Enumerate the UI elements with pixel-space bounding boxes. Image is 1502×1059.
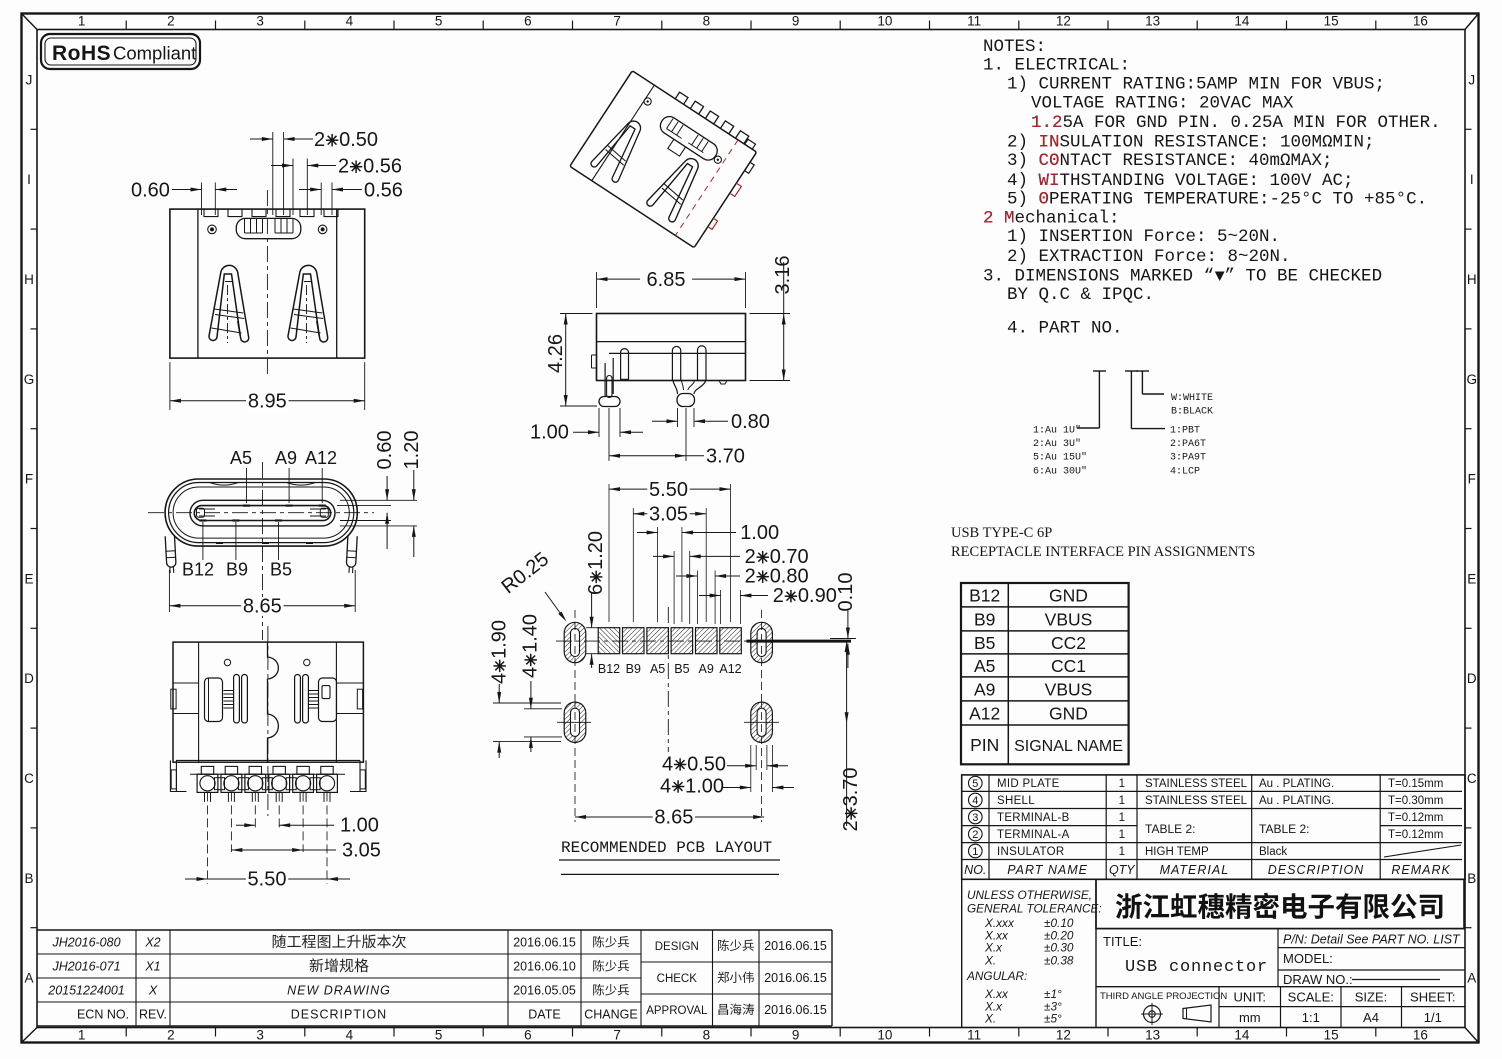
svg-text:6: 6 — [524, 14, 532, 29]
svg-text:16: 16 — [1413, 14, 1428, 29]
svg-text:TABLE 2:: TABLE 2: — [1259, 822, 1309, 836]
svg-text:2:Au 3U": 2:Au 3U" — [1033, 438, 1081, 450]
svg-text:B5: B5 — [974, 633, 995, 653]
svg-text:4: 4 — [660, 775, 671, 797]
svg-text:0.10: 0.10 — [835, 573, 857, 612]
svg-text:SHEET:: SHEET: — [1410, 990, 1456, 1005]
svg-text:10: 10 — [877, 1028, 892, 1043]
svg-text:0.50: 0.50 — [687, 753, 726, 775]
svg-text:3: 3 — [972, 812, 978, 824]
svg-text:1: 1 — [1119, 795, 1125, 807]
svg-text:NOTES:: NOTES: — [983, 37, 1046, 57]
svg-text:Compliant: Compliant — [113, 43, 196, 64]
svg-text:4:LCP: 4:LCP — [1170, 466, 1200, 477]
svg-text:11: 11 — [967, 1028, 981, 1043]
svg-text:16: 16 — [1413, 1028, 1428, 1043]
svg-text:GND: GND — [1049, 704, 1088, 724]
svg-text:B12: B12 — [182, 560, 214, 580]
svg-text:6.85: 6.85 — [647, 269, 686, 291]
svg-text:5.50: 5.50 — [649, 479, 688, 501]
svg-text:14: 14 — [1234, 1028, 1250, 1043]
svg-text:±0.38: ±0.38 — [1044, 954, 1074, 968]
svg-text:DRAW NO.:: DRAW NO.: — [1283, 972, 1353, 987]
svg-text:ANGULAR:: ANGULAR: — [966, 969, 1027, 983]
svg-text:I: I — [1470, 172, 1474, 187]
svg-text:A4: A4 — [1363, 1010, 1379, 1025]
svg-text:15: 15 — [1324, 14, 1339, 29]
svg-text:2:PA6T: 2:PA6T — [1170, 439, 1206, 450]
svg-text:2016.06.15: 2016.06.15 — [764, 939, 827, 953]
svg-text:1.20: 1.20 — [585, 531, 607, 570]
svg-text:3.05: 3.05 — [342, 840, 381, 862]
svg-text:RoHS: RoHS — [52, 42, 111, 65]
svg-text:6: 6 — [585, 584, 607, 595]
svg-text:A12: A12 — [719, 662, 741, 676]
svg-text:CHECK: CHECK — [657, 973, 698, 985]
svg-text:1) CURRENT RATING:5AMP MIN FOR: 1) CURRENT RATING:5AMP MIN FOR VBUS; — [1007, 74, 1385, 94]
svg-text:0.50: 0.50 — [339, 129, 378, 151]
svg-text:SCALE:: SCALE: — [1288, 990, 1334, 1005]
svg-text:RECOMMENDED PCB LAYOUT: RECOMMENDED PCB LAYOUT — [561, 839, 772, 857]
svg-text:2: 2 — [314, 129, 325, 151]
svg-text:5:Au 15U": 5:Au 15U" — [1033, 452, 1087, 464]
svg-text:NEW DRAWING: NEW DRAWING — [287, 984, 391, 998]
svg-text:UNIT:: UNIT: — [1234, 990, 1267, 1005]
svg-text:B9: B9 — [226, 560, 248, 580]
svg-text:HIGH TEMP: HIGH TEMP — [1145, 846, 1209, 858]
svg-text:10: 10 — [877, 14, 892, 29]
svg-text:±5°: ±5° — [1044, 1012, 1062, 1026]
svg-text:1/1: 1/1 — [1424, 1010, 1442, 1025]
svg-text:USB TYPE-C 6P: USB TYPE-C 6P — [951, 525, 1052, 541]
svg-text:D: D — [24, 671, 34, 686]
svg-text:2016.06.15: 2016.06.15 — [764, 971, 827, 985]
svg-text:B5: B5 — [674, 662, 689, 676]
svg-text:1: 1 — [1119, 812, 1125, 824]
svg-text:2: 2 — [167, 14, 175, 29]
svg-text:CC2: CC2 — [1051, 633, 1086, 653]
svg-text:A12: A12 — [305, 448, 337, 468]
svg-text:8.65: 8.65 — [654, 807, 693, 829]
svg-text:A5: A5 — [974, 656, 995, 676]
svg-text:3.70: 3.70 — [840, 767, 862, 806]
svg-text:1.20: 1.20 — [401, 431, 423, 470]
svg-text:A9: A9 — [974, 680, 995, 700]
svg-text:2) EXTRACTION Force: 8~20N.: 2) EXTRACTION Force: 8~20N. — [1007, 247, 1291, 267]
svg-text:Black: Black — [1259, 846, 1287, 858]
svg-text:VBUS: VBUS — [1045, 610, 1093, 630]
svg-text:A: A — [24, 971, 33, 986]
svg-text:1: 1 — [1119, 846, 1125, 858]
svg-text:JH2016-080: JH2016-080 — [51, 936, 120, 950]
svg-text:GENERAL TOLERANCE:: GENERAL TOLERANCE: — [967, 902, 1102, 916]
svg-text:PART NAME: PART NAME — [1007, 863, 1088, 877]
svg-text:0.90: 0.90 — [798, 585, 837, 607]
svg-text:A12: A12 — [969, 704, 1000, 724]
svg-text:DESCRIPTION: DESCRIPTION — [1268, 863, 1364, 877]
svg-text:MATERIAL: MATERIAL — [1160, 863, 1230, 877]
svg-text:1.00: 1.00 — [740, 522, 779, 544]
svg-text:RECEPTACLE INTERFACE PIN ASSIG: RECEPTACLE INTERFACE PIN ASSIGNMENTS — [951, 544, 1255, 560]
svg-text:TITLE:: TITLE: — [1103, 934, 1142, 949]
svg-text:8: 8 — [703, 1028, 711, 1043]
svg-text:APPROVAL: APPROVAL — [646, 1005, 708, 1017]
svg-text:6:Au 30U": 6:Au 30U" — [1033, 465, 1087, 477]
svg-text:0.56: 0.56 — [364, 180, 403, 202]
svg-text:IN: IN — [1039, 133, 1060, 153]
svg-text:STAINLESS STEEL: STAINLESS STEEL — [1145, 795, 1248, 807]
svg-text:4.26: 4.26 — [545, 334, 567, 373]
svg-text:4: 4 — [662, 753, 673, 775]
svg-text:BY Q.C & IPQC.: BY Q.C & IPQC. — [1007, 285, 1154, 305]
svg-text:5) OPERATING TEMPERATURE:-25°C: 5) OPERATING TEMPERATURE:-25°C TO +85°C. — [1007, 189, 1427, 209]
svg-text:X1: X1 — [144, 960, 160, 974]
svg-text:5: 5 — [435, 14, 443, 29]
svg-text:2: 2 — [840, 820, 862, 831]
svg-text:H: H — [24, 272, 34, 287]
svg-text:TERMINAL-B: TERMINAL-B — [997, 812, 1070, 824]
svg-text:THIRD ANGLE PROJECTION: THIRD ANGLE PROJECTION — [1100, 991, 1227, 1002]
svg-text:JH2016-071: JH2016-071 — [51, 960, 120, 974]
svg-text:TABLE 2:: TABLE 2: — [1145, 822, 1195, 836]
svg-text:CHANGE: CHANGE — [584, 1008, 637, 1022]
svg-text:SIGNAL NAME: SIGNAL NAME — [1014, 738, 1123, 755]
svg-text:X.: X. — [984, 1012, 996, 1026]
svg-text:2: 2 — [167, 1028, 175, 1043]
svg-text:A: A — [1467, 971, 1476, 986]
svg-text:A5: A5 — [650, 662, 665, 676]
svg-text:13: 13 — [1145, 1028, 1160, 1043]
svg-text:B: B — [24, 871, 33, 886]
svg-text:1.00: 1.00 — [340, 815, 379, 837]
svg-text:0.60: 0.60 — [374, 431, 396, 470]
svg-text:9: 9 — [792, 1028, 800, 1043]
svg-text:5: 5 — [972, 778, 978, 790]
svg-text:B9: B9 — [626, 662, 641, 676]
svg-text:5.50: 5.50 — [248, 869, 287, 891]
svg-text:3. DIMENSIONS MARKED “ ” TO BE: 3. DIMENSIONS MARKED “ ” TO BE CHECKED — [983, 266, 1382, 286]
svg-text:WI: WI — [1039, 171, 1060, 191]
svg-text:3: 3 — [256, 14, 264, 29]
svg-text:A9: A9 — [275, 448, 297, 468]
svg-text:2016.05.05: 2016.05.05 — [513, 984, 576, 998]
svg-text:9: 9 — [792, 14, 800, 29]
svg-text:1:1: 1:1 — [1302, 1010, 1320, 1025]
svg-text:2016.06.15: 2016.06.15 — [764, 1003, 827, 1017]
svg-text:1: 1 — [78, 14, 86, 29]
svg-text:USB connector: USB connector — [1125, 958, 1268, 977]
svg-text:4: 4 — [520, 667, 542, 678]
svg-text:SHELL: SHELL — [997, 795, 1035, 807]
svg-text:MODEL:: MODEL: — [1283, 951, 1333, 966]
svg-text:8: 8 — [703, 14, 711, 29]
svg-text:F: F — [1468, 472, 1476, 487]
svg-text:1.00: 1.00 — [685, 775, 724, 797]
svg-text:2: 2 — [983, 209, 994, 229]
svg-text:T=0.15mm: T=0.15mm — [1388, 778, 1443, 790]
svg-text:B12: B12 — [598, 662, 620, 676]
svg-text:DESCRIPTION: DESCRIPTION — [291, 1008, 387, 1022]
svg-text:F: F — [25, 472, 33, 487]
svg-text:ECN NO.: ECN NO. — [77, 1008, 129, 1022]
svg-text:E: E — [1467, 571, 1476, 586]
svg-text:1.25A FOR GND PIN. 0.25A MIN F: 1.25A FOR GND PIN. 0.25A MIN FOR OTHER. — [1031, 113, 1441, 133]
svg-text:J: J — [26, 72, 33, 87]
svg-text:A5: A5 — [230, 448, 252, 468]
svg-text:5: 5 — [435, 1028, 443, 1043]
svg-text:7: 7 — [613, 14, 621, 29]
svg-text:X.: X. — [984, 954, 996, 968]
svg-text:4: 4 — [346, 1028, 354, 1043]
svg-text:T=0.30mm: T=0.30mm — [1388, 795, 1443, 807]
svg-text:GND: GND — [1049, 586, 1088, 606]
svg-text:1.40: 1.40 — [520, 614, 542, 653]
svg-text:4: 4 — [972, 795, 978, 807]
svg-text:B9: B9 — [974, 610, 995, 630]
svg-text:1. ELECTRICAL:: 1. ELECTRICAL: — [983, 56, 1130, 76]
svg-text:7: 7 — [613, 1028, 621, 1043]
svg-text:B: B — [1467, 871, 1476, 886]
svg-text:3:PA9T: 3:PA9T — [1170, 453, 1206, 464]
svg-text:SIZE:: SIZE: — [1355, 990, 1388, 1005]
svg-text:3.05: 3.05 — [649, 504, 688, 526]
svg-text:X2: X2 — [144, 936, 160, 950]
svg-text:MID PLATE: MID PLATE — [997, 778, 1060, 790]
svg-text:1:Au 1U": 1:Au 1U" — [1033, 425, 1081, 437]
svg-text:mm: mm — [1239, 1010, 1261, 1025]
svg-text:UNLESS OTHERWISE,: UNLESS OTHERWISE, — [967, 888, 1092, 902]
svg-text:2: 2 — [745, 566, 756, 588]
svg-text:VBUS: VBUS — [1045, 680, 1093, 700]
svg-text:M: M — [1004, 209, 1015, 229]
svg-text:C0: C0 — [1039, 151, 1060, 171]
svg-text:T=0.12mm: T=0.12mm — [1388, 829, 1443, 841]
svg-text:4: 4 — [489, 673, 511, 684]
svg-text:±0.30: ±0.30 — [1044, 941, 1074, 955]
svg-text:3.70: 3.70 — [706, 446, 745, 468]
svg-text:D: D — [1467, 671, 1477, 686]
svg-text:C: C — [24, 771, 34, 786]
svg-text:G: G — [1467, 372, 1478, 387]
svg-text:VOLTAGE RATING: 20VAC MAX: VOLTAGE RATING: 20VAC MAX — [1031, 93, 1294, 113]
svg-text:A9: A9 — [699, 662, 714, 676]
svg-text:QTY: QTY — [1109, 863, 1136, 877]
svg-text:14: 14 — [1234, 14, 1250, 29]
svg-text:H: H — [1467, 272, 1477, 287]
svg-text:1: 1 — [972, 846, 978, 858]
svg-text:2016.06.10: 2016.06.10 — [513, 960, 576, 974]
svg-text:2: 2 — [972, 829, 978, 841]
svg-text:PIN: PIN — [970, 735, 999, 755]
svg-text:1: 1 — [1119, 778, 1125, 790]
svg-text:1.90: 1.90 — [489, 620, 511, 659]
svg-text:15: 15 — [1324, 1028, 1339, 1043]
svg-text:X.x: X.x — [984, 941, 1003, 955]
svg-text:8.95: 8.95 — [248, 391, 287, 413]
svg-text:DATE: DATE — [528, 1008, 560, 1022]
svg-text:REMARK: REMARK — [1391, 863, 1450, 877]
svg-text:2: 2 — [773, 585, 784, 607]
svg-text:1) INSERTION Force: 5~20N.: 1) INSERTION Force: 5~20N. — [1007, 227, 1280, 247]
svg-text:11: 11 — [967, 14, 981, 29]
svg-text:REV.: REV. — [139, 1008, 167, 1022]
svg-text:2: 2 — [338, 156, 349, 178]
svg-text:2) INSULATION RESISTANCE: 100M: 2) INSULATION RESISTANCE: 100MΩMIN; — [1007, 133, 1375, 153]
svg-text:0: 0 — [1039, 189, 1050, 209]
svg-text:NO.: NO. — [964, 863, 986, 877]
svg-text:0.80: 0.80 — [731, 411, 770, 433]
svg-text:STAINLESS STEEL: STAINLESS STEEL — [1145, 778, 1248, 790]
svg-text:3: 3 — [256, 1028, 264, 1043]
svg-text:2016.06.15: 2016.06.15 — [513, 936, 576, 950]
svg-text:DESIGN: DESIGN — [655, 941, 699, 953]
svg-text:12: 12 — [1056, 14, 1071, 29]
svg-text:12: 12 — [1056, 1028, 1071, 1043]
svg-text:I: I — [27, 172, 31, 187]
svg-text:B12: B12 — [969, 586, 1000, 606]
svg-text:3.16: 3.16 — [772, 256, 794, 295]
svg-text:1.2: 1.2 — [1031, 113, 1063, 133]
svg-text:1: 1 — [78, 1028, 86, 1043]
svg-text:1:PBT: 1:PBT — [1170, 426, 1200, 437]
svg-text:Au . PLATING.: Au . PLATING. — [1259, 795, 1334, 807]
svg-text:G: G — [24, 372, 35, 387]
svg-text:C: C — [1467, 771, 1477, 786]
svg-text:X: X — [148, 984, 158, 998]
svg-text:T=0.12mm: T=0.12mm — [1388, 812, 1443, 824]
svg-text:13: 13 — [1145, 14, 1160, 29]
svg-text:1: 1 — [1119, 829, 1125, 841]
svg-text:B:BLACK: B:BLACK — [1171, 407, 1213, 418]
svg-text:TERMINAL-A: TERMINAL-A — [997, 829, 1070, 841]
svg-text:P/N: Detail See PART NO. LIST: P/N: Detail See PART NO. LIST — [1283, 933, 1461, 947]
svg-text:B5: B5 — [270, 560, 292, 580]
svg-text:INSULATOR: INSULATOR — [997, 846, 1064, 858]
svg-text:J: J — [1468, 72, 1475, 87]
svg-text:6: 6 — [524, 1028, 532, 1043]
svg-text:1.00: 1.00 — [530, 422, 569, 444]
svg-text:4. PART NO.: 4. PART NO. — [1007, 319, 1123, 339]
svg-text:0.60: 0.60 — [131, 180, 170, 202]
svg-text:8.65: 8.65 — [243, 596, 282, 618]
svg-text:0.56: 0.56 — [363, 156, 402, 178]
svg-text:CC1: CC1 — [1051, 656, 1086, 676]
svg-text:W:WHITE: W:WHITE — [1171, 393, 1213, 404]
svg-text:20151224001: 20151224001 — [47, 984, 124, 998]
svg-text:4: 4 — [346, 14, 354, 29]
svg-text:Au . PLATING.: Au . PLATING. — [1259, 778, 1334, 790]
svg-text:E: E — [24, 571, 33, 586]
